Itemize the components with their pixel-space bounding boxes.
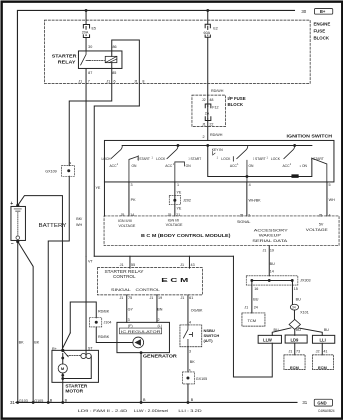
IC regulator box: [119, 328, 161, 334]
svg-text:START: START: [313, 157, 324, 161]
svg-text:8: 8: [142, 79, 144, 83]
svg-text:6: 6: [189, 368, 191, 372]
svg-text:7: 7: [88, 79, 90, 83]
svg-text:E C M: E C M: [161, 278, 189, 284]
svg-text:75: 75: [128, 296, 132, 300]
wire I/P fuse block to ignition switch pin 2: [207, 119, 209, 141]
svg-text:YE: YE: [176, 207, 181, 211]
svg-text:LOCK: LOCK: [101, 157, 111, 161]
svg-text:PK: PK: [131, 198, 136, 202]
svg-text:ON: ON: [302, 164, 308, 168]
svg-text:F12: F12: [212, 105, 218, 109]
svg-text:RD/BK: RD/BK: [98, 335, 110, 339]
svg-text:3: 3: [128, 318, 130, 322]
svg-text:BLOCK: BLOCK: [227, 102, 243, 107]
svg-text:WAKEUP: WAKEUP: [259, 234, 282, 238]
svg-text:IC.REGULATOR: IC.REGULATOR: [121, 330, 161, 334]
wire rail30 to fuse E2: [207, 10, 209, 24]
svg-text:B: B: [65, 398, 68, 402]
svg-text:LLI: LLI: [319, 338, 325, 343]
svg-text:1: 1: [290, 163, 292, 166]
I/P fuse block (dashed box): [192, 95, 226, 127]
svg-text:RD/WH: RD/WH: [210, 133, 223, 137]
svg-text:SERIAL DATA: SERIAL DATA: [252, 239, 288, 243]
svg-text:VOLTAGE: VOLTAGE: [118, 224, 135, 228]
wire LD9 to ECM J1|73: [294, 343, 296, 355]
battery positive cable to starter R+: [18, 196, 63, 351]
svg-text:RD/BK: RD/BK: [98, 310, 110, 314]
wire diamond to LD9 drop: [294, 329, 296, 335]
svg-text:30: 30: [301, 9, 306, 14]
svg-text:J1: J1: [180, 263, 184, 267]
junction dot generator output: [140, 351, 143, 354]
section4 contact blade: [284, 145, 295, 158]
svg-text:IGN II/III: IGN II/III: [118, 219, 132, 223]
svg-text:(F): (F): [128, 324, 133, 328]
starter solenoid link (dashed): [67, 354, 81, 356]
svg-text:16: 16: [254, 287, 258, 291]
wire relay coil 85 down to GX109 ground line: [69, 63, 112, 166]
ground splice GX109 (dashed box with dot): [61, 166, 74, 177]
wire J202 YE down to BCM J5|21: [174, 202, 176, 216]
wire pin 4 WH/BK to BCM J5|2: [246, 182, 248, 216]
wire solenoid to motor node: [63, 353, 92, 378]
wire GX109 down, jog left, down to ground rail dot B: [48, 176, 69, 402]
svg-text:ON: ON: [248, 164, 254, 168]
svg-text:B: B: [191, 398, 194, 402]
junction dot lower bus pin4: [246, 175, 249, 178]
junction dot bus section4: [293, 144, 296, 147]
svg-text:BK: BK: [190, 360, 195, 364]
junction dot ground rail G105: [32, 401, 35, 404]
svg-text:J1: J1: [244, 306, 248, 310]
svg-text:48: 48: [209, 98, 213, 102]
svg-text:VOLTAGE: VOLTAGE: [166, 223, 183, 227]
svg-text:J1: J1: [119, 296, 123, 300]
option box LLI: [312, 335, 334, 343]
ground splice GX105 (dashed box with dot): [182, 372, 194, 384]
diagonal charge wire into R+ node: [63, 333, 71, 348]
junction dot ground rail B (x48): [47, 401, 50, 404]
svg-text:BATTERY: BATTERY: [38, 223, 67, 229]
svg-text:2: 2: [248, 213, 250, 217]
TCM box (dashed): [242, 313, 265, 326]
svg-text:5V: 5V: [319, 223, 324, 227]
svg-text:(A/T): (A/T): [203, 338, 213, 343]
svg-text:6: 6: [114, 79, 116, 83]
charge wire bridge R+ to generator lamp: [70, 302, 96, 333]
svg-text:J1: J1: [78, 79, 82, 83]
svg-text:GY: GY: [128, 308, 134, 312]
junction dot on rail 30 at fuse E5: [85, 9, 88, 12]
junction dot JX303 right: [291, 279, 294, 282]
battery internal plates: [14, 209, 21, 211]
svg-text:ON: ON: [186, 164, 192, 168]
ECM box diesel (dashed): [284, 355, 305, 370]
starter solenoid coil: [81, 353, 86, 358]
junction dot on rail 30 at fuse E2: [206, 9, 209, 12]
wire NSBU BK down to GX105: [187, 347, 189, 372]
svg-text:9: 9: [70, 161, 72, 165]
section2 contact blade: [167, 145, 178, 158]
svg-text:1: 1: [177, 183, 179, 187]
wire pin 1 YE to splice J202: [174, 182, 176, 199]
svg-text:STARTER: STARTER: [52, 53, 77, 58]
svg-text:+: +: [10, 201, 13, 207]
junction splice JX303 (dashed box): [246, 276, 298, 285]
svg-text:1: 1: [237, 163, 239, 166]
wire ECM J1|75 GY to generator F: [126, 295, 128, 323]
fuse E2 60A: [205, 24, 210, 37]
section3 contact blade: [237, 145, 248, 158]
junction dot ground rail B (generator): [140, 401, 143, 404]
svg-text:4: 4: [328, 213, 330, 217]
svg-text:WH/BK: WH/BK: [249, 199, 262, 203]
svg-text:YE: YE: [176, 191, 181, 195]
svg-text:BU: BU: [273, 328, 278, 332]
svg-text:OG/BK: OG/BK: [191, 309, 203, 313]
svg-text:87: 87: [88, 71, 92, 75]
svg-text:41: 41: [323, 350, 327, 354]
svg-text:61: 61: [189, 296, 193, 300]
svg-text:J1: J1: [202, 123, 206, 127]
svg-text:LOCK: LOCK: [271, 157, 281, 161]
svg-text:BU: BU: [324, 328, 329, 332]
svg-text:LOCK: LOCK: [156, 157, 166, 161]
wire relay coil 86 up and over to J1|8: [112, 40, 140, 106]
JX303 internal bus: [252, 279, 292, 281]
junction dot ground rail B (starter): [61, 401, 64, 404]
starter motor box: [52, 350, 98, 382]
generator box: [117, 322, 170, 352]
svg-text:J1: J1: [106, 79, 110, 83]
svg-text:BLOCK: BLOCK: [313, 36, 329, 41]
wire relay 87 VT down to starter ST: [85, 256, 87, 353]
fuse F12 2A: [205, 104, 211, 121]
generator symbol (circle with triangle): [133, 337, 144, 348]
svg-text:60A: 60A: [204, 31, 211, 35]
svg-text:4: 4: [249, 183, 251, 187]
starter relay coil (hatched box): [105, 56, 117, 62]
svg-text:BU: BU: [296, 328, 301, 332]
option box LLW: [258, 335, 281, 343]
wire BCM accessory wakeup serial data to J1|19: [268, 246, 270, 276]
ground rail 31 (bottom): [16, 401, 297, 403]
junction dot ground rail B (GX105): [187, 401, 190, 404]
ignition switch internal feed bus: [122, 145, 312, 176]
svg-text:19: 19: [158, 296, 162, 300]
svg-text:G103: G103: [19, 399, 28, 403]
svg-text:IGN I/II: IGN I/II: [168, 219, 180, 223]
wire ignition left edge YE down to BCM: [103, 182, 105, 216]
svg-text:55: 55: [131, 263, 135, 267]
ignition switch box: [104, 140, 334, 182]
svg-text:BK/: BK/: [76, 217, 83, 221]
wire ECM J1|61 OG/BK to NSBU switch: [187, 295, 189, 325]
svg-text:LLW : 2.0Diesel: LLW : 2.0Diesel: [134, 408, 169, 413]
svg-text:VT: VT: [88, 259, 93, 263]
svg-text:I/P FUSE: I/P FUSE: [227, 96, 245, 101]
svg-text:E5: E5: [91, 27, 96, 31]
wire control loop down-left-up to LLW box: [233, 256, 272, 377]
label 30 (top rail): [0, 0, 1, 1]
svg-text:LLI : 3.2D: LLI : 3.2D: [178, 408, 201, 413]
svg-text:RD/WH: RD/WH: [211, 89, 224, 93]
starter relay contact 30-87: [81, 51, 90, 65]
junction dot JX303 middle: [268, 279, 271, 282]
svg-text:MOTOR: MOTOR: [65, 389, 84, 394]
svg-text:J2: J2: [202, 98, 206, 102]
inline connector 34 (ellipse): [290, 304, 298, 310]
terminal box GND: [314, 399, 332, 406]
svg-text:VOLTAGE: VOLTAGE: [306, 228, 329, 232]
svg-text:YE: YE: [95, 186, 100, 190]
svg-text:BK: BK: [19, 341, 24, 345]
svg-text:31: 31: [302, 400, 307, 405]
wire pin 5 WH to BCM J5|4: [326, 182, 328, 216]
svg-text:B: B: [50, 398, 53, 402]
svg-text:GND: GND: [317, 401, 326, 406]
svg-text:START: START: [191, 157, 202, 161]
node 30 supply rail (top): [17, 10, 294, 205]
svg-text:ENGINE: ENGINE: [313, 22, 330, 27]
NSBU switch box (dashed): [180, 325, 202, 347]
wire starter motor to ground rail B: [62, 373, 64, 402]
svg-text:BU: BU: [253, 297, 258, 301]
svg-text:2: 2: [202, 135, 204, 139]
svg-text:24: 24: [254, 306, 258, 310]
svg-text:WH: WH: [329, 198, 335, 202]
svg-text:86: 86: [112, 45, 116, 49]
wire fuse E5 to relay pin30: [85, 37, 87, 51]
wire fuse E2 down to I/P fuse block: [207, 37, 209, 106]
svg-text:J104: J104: [103, 321, 111, 325]
wire diamond to LLW drop: [272, 328, 291, 335]
svg-text:J1: J1: [149, 296, 153, 300]
svg-text:WH: WH: [76, 223, 82, 227]
svg-text:M: M: [61, 366, 65, 371]
wire pin 3 PK to BCM J5|14: [128, 182, 130, 216]
svg-text:LD9 : FAM II - 2.4D: LD9 : FAM II - 2.4D: [78, 408, 128, 413]
svg-text:ACC: ACC: [165, 164, 173, 168]
label 2A: [204, 110, 211, 115]
svg-text:IGNITION SWITCH: IGNITION SWITCH: [287, 134, 333, 139]
junction dot bus section2: [177, 144, 180, 147]
svg-text:1: 1: [266, 156, 268, 159]
wire GX105 to ground rail B: [187, 384, 189, 403]
wire J104 RD/BK down to generator terminal: [96, 327, 132, 343]
svg-text:BN: BN: [157, 308, 162, 312]
svg-text:J1: J1: [288, 350, 292, 354]
svg-text:J1: J1: [180, 296, 184, 300]
starter relay box: [78, 51, 122, 68]
svg-text:SINGAL: SINGAL: [111, 287, 132, 292]
wire ECM J1|19 BN to generator L: [156, 295, 158, 323]
svg-text:CONTROL: CONTROL: [113, 274, 136, 279]
svg-text:E2: E2: [213, 27, 218, 31]
wire battery negative to ground G105: [18, 241, 33, 402]
svg-text:B+: B+: [320, 9, 326, 14]
svg-text:KEY IN: KEY IN: [212, 148, 223, 152]
svg-text:G105: G105: [34, 399, 43, 403]
svg-text:LLW: LLW: [263, 338, 272, 343]
svg-text:J2: J2: [316, 350, 320, 354]
svg-text:ON: ON: [131, 164, 137, 168]
svg-text:2: 2: [157, 318, 159, 322]
svg-text:−: −: [11, 241, 14, 247]
svg-text:4: 4: [189, 321, 191, 325]
section1 contact blade: [111, 145, 122, 158]
junction dot ground rail G103: [16, 401, 19, 404]
label 60A: [203, 30, 213, 35]
svg-text:20A: 20A: [82, 31, 89, 35]
svg-text:ECM: ECM: [290, 365, 300, 370]
svg-text:GX105: GX105: [196, 377, 207, 381]
svg-text:BK: BK: [34, 341, 39, 345]
wire LLI to ECM J2|41: [321, 343, 323, 355]
svg-text:22: 22: [209, 123, 213, 127]
svg-text:R+: R+: [52, 347, 57, 351]
svg-text:ST: ST: [88, 346, 93, 350]
section4 start contact to pin 5: [312, 158, 327, 182]
wire relay 87 down (VT): [85, 68, 87, 256]
svg-text:CONTROL: CONTROL: [136, 287, 161, 292]
svg-text:SIGNAL: SIGNAL: [237, 220, 251, 224]
wire rail30 to fuse E5: [85, 10, 87, 24]
splice J202 (dashed box with dot): [169, 195, 180, 204]
wire generator ground to rail B: [140, 353, 142, 403]
starter motor (circle M): [58, 364, 67, 373]
ECM box (dashed): [97, 268, 202, 295]
svg-text:RELAY: RELAY: [58, 59, 76, 64]
svg-text:START: START: [255, 157, 266, 161]
svg-text:JX303: JX303: [300, 279, 310, 283]
svg-text:3: 3: [130, 183, 132, 187]
contact pad (solid rect) on lower bus: [291, 174, 298, 178]
svg-text:43: 43: [191, 263, 195, 267]
svg-text:J5: J5: [167, 213, 171, 217]
junction dot JX303 left: [250, 279, 253, 282]
ECM box 3.2D (dashed): [312, 355, 333, 370]
splice J104 (dashed box with dot): [89, 318, 101, 327]
wire relay 86 control: left jog then down to ECM control line: [94, 106, 139, 256]
svg-text:J1: J1: [262, 249, 266, 253]
starter R+ terminal dot: [61, 349, 64, 352]
svg-text:21: 21: [176, 213, 180, 217]
wire diamond to LLI drop: [299, 328, 323, 335]
terminal box B+: [314, 9, 332, 15]
svg-text:(L): (L): [157, 324, 162, 328]
svg-text:85: 85: [112, 71, 116, 75]
section1 output to pin 3: [129, 156, 138, 182]
svg-text:J202: J202: [183, 198, 191, 202]
wire battery negative to ground G103: [17, 241, 19, 402]
svg-text:TCM: TCM: [247, 318, 256, 323]
svg-text:C4WA0B24: C4WA0B24: [318, 409, 335, 413]
battery positive terminal dot: [16, 204, 19, 207]
svg-text:LD9: LD9: [290, 338, 299, 343]
svg-text:J1: J1: [134, 79, 138, 83]
battery negative terminal dot: [16, 240, 19, 243]
option box LD9: [285, 335, 307, 343]
svg-text:ECM: ECM: [318, 365, 328, 370]
section3 output to pin 4: [233, 157, 247, 182]
starter solenoid contact blade: [63, 350, 69, 356]
svg-text:GX109: GX109: [45, 170, 56, 174]
svg-text:START: START: [139, 157, 150, 161]
svg-text:19: 19: [270, 249, 274, 253]
wire ECM starter relay control horizontal (VT net): [94, 255, 233, 257]
svg-text:14: 14: [130, 213, 134, 217]
starter relay mechanical link (dashed): [89, 60, 104, 62]
svg-text:30: 30: [88, 45, 92, 49]
connector X101 (diamond): [289, 319, 300, 329]
wire tap to ECM J1|43: [188, 256, 190, 268]
svg-text:J1: J1: [120, 263, 124, 267]
svg-text:FUSE: FUSE: [313, 29, 325, 34]
svg-text:1: 1: [217, 156, 219, 159]
wire JX303 pin16 BU down to TCM: [251, 280, 253, 313]
svg-text:X101: X101: [300, 311, 309, 315]
battery box: [11, 206, 26, 240]
fuse E5 20A: [83, 24, 89, 37]
svg-text:J5: J5: [318, 213, 322, 217]
svg-text:ACCESSORY: ACCESSORY: [254, 229, 289, 233]
junction dot motor top: [61, 357, 64, 360]
label 20A: [81, 30, 91, 35]
svg-text:34: 34: [292, 306, 296, 310]
wire tap to ECM J1|55: [129, 256, 131, 268]
svg-text:31: 31: [10, 400, 15, 405]
svg-text:1: 1: [117, 163, 119, 166]
svg-text:LOCK: LOCK: [221, 157, 231, 161]
svg-text:1: 1: [151, 156, 153, 159]
svg-text:14: 14: [270, 269, 274, 273]
BCM box (dashed): [104, 216, 339, 246]
svg-text:B: B: [143, 398, 146, 402]
svg-text:B C M (BODY CONTROL MODULE): B C M (BODY CONTROL MODULE): [141, 233, 231, 239]
svg-text:15: 15: [294, 287, 298, 291]
NSBU switch contact: [183, 325, 192, 347]
svg-text:73: 73: [296, 350, 300, 354]
svg-text:3: 3: [189, 350, 191, 354]
svg-text:GENERATOR: GENERATOR: [143, 354, 178, 359]
wire JX303 pin15 BU down to connector 34/X101: [292, 280, 294, 319]
engine fuse block (dashed box): [44, 20, 310, 83]
key-in switch mark: [213, 151, 215, 155]
svg-text:J5: J5: [120, 213, 124, 217]
svg-text:5: 5: [328, 183, 330, 187]
junction dot motor bottom: [61, 374, 64, 377]
svg-text:BU: BU: [270, 262, 275, 266]
section2 output to pin 1: [175, 162, 185, 182]
svg-text:J5: J5: [239, 213, 243, 217]
svg-text:BU: BU: [296, 297, 301, 301]
junction dot bus feed: [206, 144, 209, 147]
